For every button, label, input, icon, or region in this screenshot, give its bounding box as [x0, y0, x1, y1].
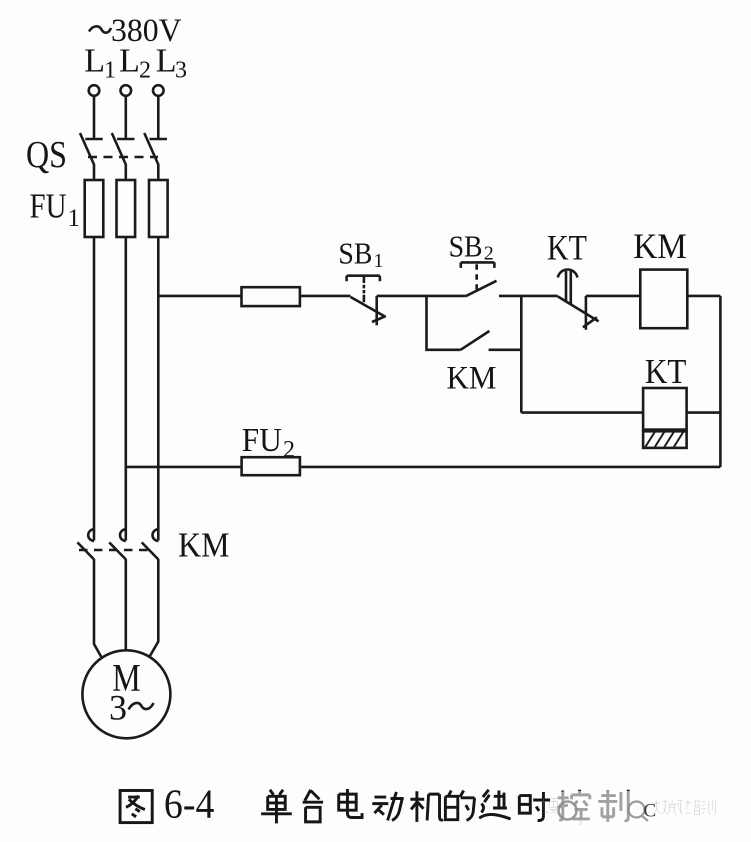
contactor KM main contact pole 3 — [142, 529, 159, 656]
contact KM auxiliary (self-hold branch) — [427, 296, 522, 413]
label ~380V supply — [111, 13, 182, 49]
fuse FU1 pole 1 — [85, 180, 104, 237]
svg-text:1: 1 — [68, 205, 81, 232]
switch QS pole 2 — [112, 133, 135, 165]
label M 3~ — [109, 657, 141, 728]
right rail vertical — [719, 296, 722, 467]
label KM aux — [447, 361, 497, 397]
svg-text:C: C — [644, 801, 657, 822]
label KM coil — [633, 226, 687, 266]
fuse FU1 pole 2 — [117, 180, 136, 237]
caption char dian — [339, 789, 362, 817]
wire QS to FU1 pole1 — [93, 164, 96, 180]
wire fuse to SB1 — [300, 295, 351, 298]
svg-text:L: L — [156, 43, 177, 80]
wire SB1 to SB2 — [377, 295, 466, 298]
motor tilde — [129, 703, 154, 710]
terminal L1 — [89, 85, 100, 96]
contact KT delayed NC — [558, 269, 599, 329]
label FU1 — [30, 187, 81, 233]
wire phase B main — [125, 237, 128, 541]
wire QS to FU1 pole2 — [125, 164, 128, 180]
bottom return rail — [126, 466, 242, 469]
wire QS to FU1 pole3 — [157, 164, 160, 180]
caption char yan — [479, 790, 510, 819]
caption figure 6-4 — [120, 781, 628, 827]
svg-text:KT: KT — [547, 228, 587, 268]
caption char de — [445, 790, 474, 820]
label SB1 — [338, 236, 383, 272]
wire KT coil to right rail — [687, 411, 721, 414]
label QS — [26, 134, 67, 176]
caption char ji — [410, 791, 443, 822]
wire L2 to QS — [125, 96, 128, 139]
motor M circle — [82, 650, 170, 738]
caption char tai — [303, 790, 323, 822]
wire SB2 to KT contact — [499, 295, 558, 298]
wire KM coil to right rail — [687, 295, 720, 298]
node L1 — [84, 43, 116, 84]
caption char shi — [519, 792, 550, 821]
contactor KM main contact pole 1 — [77, 529, 101, 657]
wire KT contact to KM coil — [586, 295, 640, 298]
caption text 6-4 — [164, 781, 215, 827]
svg-text:L: L — [119, 43, 140, 80]
coil KT with delay element — [643, 388, 687, 448]
svg-text:KM: KM — [633, 226, 687, 266]
svg-text:1: 1 — [374, 250, 384, 272]
caption char dan — [261, 790, 292, 824]
svg-text:FU: FU — [242, 422, 282, 459]
svg-text:2: 2 — [139, 58, 151, 84]
node L3 — [156, 43, 187, 84]
wire phase C main — [157, 237, 160, 541]
fuse FU control — [242, 287, 300, 306]
svg-text:2: 2 — [484, 243, 494, 265]
caption char zhi — [598, 790, 628, 822]
coil KM — [640, 270, 687, 329]
KM main linkage dashed — [79, 549, 149, 552]
watermark char pei — [685, 800, 701, 815]
label KT coil — [645, 352, 687, 391]
svg-text:FU: FU — [30, 187, 67, 226]
pushbutton SB2 (NO) — [461, 262, 497, 296]
terminal L3 — [153, 85, 164, 96]
svg-text:L: L — [84, 43, 105, 80]
caption char dong — [372, 792, 403, 820]
label KM main — [178, 526, 230, 565]
watermark overlay — [542, 791, 721, 830]
wire L3 to QS — [157, 96, 160, 139]
label FU2 — [242, 422, 295, 463]
fuse FU1 pole 3 — [149, 180, 168, 237]
switch QS pole 1 — [80, 133, 103, 165]
caption char kong — [558, 790, 590, 820]
watermark char ji — [653, 800, 668, 815]
control tap wire from L3 — [158, 295, 241, 298]
watermark magnifier icon 2 — [629, 802, 649, 822]
svg-text:KM: KM — [447, 361, 497, 397]
terminal L2 — [121, 85, 132, 96]
contactor KM main contact pole 2 — [109, 529, 126, 650]
svg-text:3: 3 — [109, 688, 127, 728]
watermark ghost char suo — [579, 820, 583, 824]
watermark char cheng — [668, 801, 683, 815]
switch QS pole 3 — [144, 133, 167, 165]
label SB2 — [449, 228, 494, 264]
watermark ghost char sou — [542, 798, 558, 814]
svg-text:SB: SB — [338, 236, 372, 271]
wire phase A main — [93, 237, 96, 541]
svg-text:1: 1 — [104, 58, 116, 84]
wire L1 to QS — [93, 96, 96, 139]
watermark char xun — [701, 800, 715, 814]
pushbutton SB1 (NC) — [347, 276, 386, 326]
svg-text:6-4: 6-4 — [164, 781, 215, 827]
svg-text:3: 3 — [175, 58, 187, 84]
node L2 — [119, 43, 151, 84]
watermark text c — [644, 801, 657, 822]
svg-text:KM: KM — [178, 526, 230, 565]
svg-text:QS: QS — [26, 134, 67, 176]
label KT contact — [547, 228, 587, 268]
svg-text:2: 2 — [283, 437, 295, 463]
caption char tu — [120, 790, 152, 822]
svg-text:SB: SB — [449, 228, 483, 263]
watermark magnifier circle 1 — [559, 802, 577, 820]
wire junction to KT coil — [521, 411, 643, 414]
fuse FU2 — [242, 457, 300, 475]
svg-text:KT: KT — [645, 352, 687, 391]
wire FU2 to right rail — [300, 466, 721, 469]
QS linkage dashed — [88, 156, 158, 159]
